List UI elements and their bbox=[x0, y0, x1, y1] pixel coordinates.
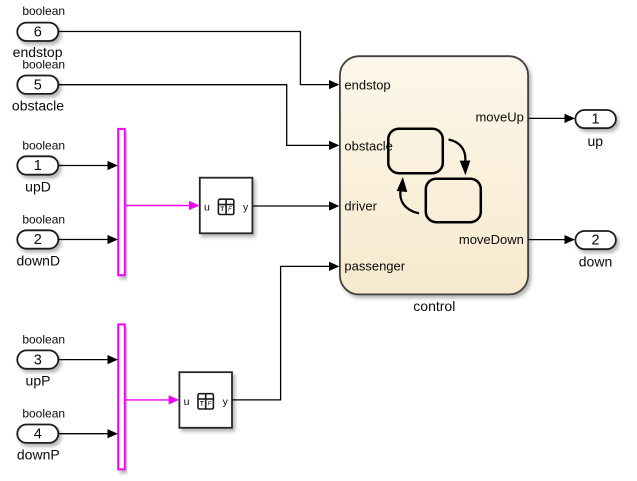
svg-text:endstop: endstop bbox=[344, 78, 390, 93]
svg-text:4: 4 bbox=[34, 426, 42, 442]
mux Mux2 bbox=[118, 324, 125, 469]
mux Mux1 bbox=[118, 129, 125, 275]
svg-text:boolean: boolean bbox=[22, 4, 65, 18]
svg-text:upP: upP bbox=[26, 372, 51, 388]
svg-text:upD: upD bbox=[25, 178, 51, 194]
inport 6 (endstop) bbox=[17, 23, 58, 41]
svg-text:3: 3 bbox=[34, 352, 42, 368]
state icon rect B bbox=[426, 179, 481, 223]
wire port2 to mux1 bbox=[59, 235, 118, 244]
svg-text:F: F bbox=[228, 207, 232, 213]
svg-text:T: T bbox=[220, 207, 224, 213]
svg-text:T: T bbox=[200, 402, 204, 408]
wire mux1 to TT1 (signal) bbox=[126, 201, 200, 210]
outport 1 (up) bbox=[575, 110, 616, 128]
wire port5 to chart obstacle bbox=[59, 85, 340, 150]
svg-text:u: u bbox=[204, 201, 210, 213]
svg-text:2: 2 bbox=[34, 232, 42, 248]
truth table block TT1 bbox=[200, 178, 253, 234]
svg-text:obstacle: obstacle bbox=[344, 138, 392, 153]
inport 5 (obstacle) bbox=[17, 76, 58, 94]
wire mux2 to TT2 (signal) bbox=[126, 395, 179, 404]
svg-text:y: y bbox=[243, 201, 249, 213]
svg-text:obstacle: obstacle bbox=[12, 98, 64, 114]
outport 2 (down) bbox=[575, 231, 616, 249]
svg-text:2: 2 bbox=[592, 233, 600, 249]
svg-text:boolean: boolean bbox=[22, 139, 65, 153]
inport 1 (upD) bbox=[17, 156, 58, 174]
svg-text:control: control bbox=[413, 298, 455, 314]
svg-text:driver: driver bbox=[344, 199, 377, 214]
wire chart moveUp to outport up bbox=[529, 114, 575, 123]
wire port1 to mux1 bbox=[59, 161, 118, 170]
svg-text:moveUp: moveUp bbox=[475, 110, 523, 125]
state transition arrow right bbox=[449, 140, 470, 174]
svg-text:boolean: boolean bbox=[22, 213, 65, 227]
svg-text:F: F bbox=[208, 402, 212, 408]
wire port6 to chart endstop bbox=[59, 32, 340, 90]
svg-text:5: 5 bbox=[34, 77, 42, 93]
svg-text:moveDown: moveDown bbox=[459, 232, 524, 247]
state transition arrow left bbox=[397, 178, 419, 213]
wire TT1 to chart driver bbox=[253, 201, 340, 210]
wire port4 to mux2 bbox=[59, 429, 118, 438]
svg-text:1: 1 bbox=[592, 112, 600, 128]
svg-text:passenger: passenger bbox=[344, 258, 405, 273]
chart block control bbox=[340, 56, 528, 294]
state icon rect A bbox=[388, 129, 443, 174]
svg-text:downD: downD bbox=[17, 252, 61, 268]
svg-text:down: down bbox=[579, 253, 612, 269]
svg-text:downP: downP bbox=[17, 446, 60, 462]
inport 2 (downD) bbox=[17, 230, 58, 248]
wire TT2 to chart passenger bbox=[232, 262, 339, 400]
svg-text:boolean: boolean bbox=[22, 58, 65, 72]
svg-text:6: 6 bbox=[34, 24, 42, 40]
inport 3 (upP) bbox=[17, 350, 58, 368]
wire port3 to mux2 bbox=[59, 355, 118, 364]
svg-text:u: u bbox=[184, 396, 190, 408]
inport 4 (downP) bbox=[17, 425, 58, 443]
svg-text:y: y bbox=[223, 396, 229, 408]
truth table block TT2 bbox=[179, 372, 232, 428]
svg-text:1: 1 bbox=[34, 158, 42, 174]
svg-text:boolean: boolean bbox=[22, 407, 65, 421]
wire chart moveDown to outport down bbox=[529, 235, 575, 244]
svg-text:boolean: boolean bbox=[22, 333, 65, 347]
svg-text:up: up bbox=[588, 133, 604, 149]
